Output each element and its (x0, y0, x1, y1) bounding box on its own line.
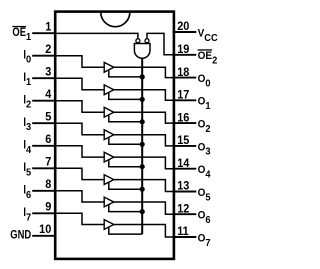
wire output O2: buffer to pin 16 (114, 112, 173, 123)
wire output O4: buffer to pin 14 (114, 157, 173, 169)
pin 2 stub (32, 55, 56, 57)
buffer A1 (triangle) (104, 85, 114, 95)
svg-text:9: 9 (45, 201, 51, 213)
svg-text:0: 0 (205, 78, 211, 90)
svg-text:GND: GND (10, 229, 31, 242)
pin 6 stub (32, 145, 56, 147)
junction dot OE net row 3 (140, 142, 145, 147)
svg-text:O: O (198, 232, 206, 245)
wire input I1: pin 3 to buffer (56, 78, 104, 90)
svg-text:O: O (198, 141, 206, 154)
svg-text:5: 5 (45, 111, 51, 123)
svg-text:OE: OE (198, 50, 212, 63)
pin 9 stub (32, 212, 56, 214)
wire enable buffer A4 to OE net (109, 160, 142, 167)
svg-text:7: 7 (205, 237, 211, 249)
pin 15 stub (173, 145, 197, 147)
svg-text:15: 15 (177, 135, 189, 147)
wire enable buffer A1 to OE net (109, 92, 142, 99)
svg-text:3: 3 (205, 146, 211, 158)
pin 7 stub (32, 167, 56, 169)
wire output O7: buffer to pin 11 (114, 225, 173, 238)
svg-text:3: 3 (26, 122, 32, 134)
svg-text:6: 6 (205, 215, 211, 227)
wire enable buffer A3 to OE net (109, 137, 142, 144)
pin 14 stub (173, 168, 197, 170)
svg-text:O: O (198, 186, 206, 199)
pin 12 stub (173, 213, 197, 215)
buffer A7 (triangle) (104, 220, 114, 230)
wire enable buffer A5 to OE net (109, 182, 142, 189)
svg-text:18: 18 (177, 67, 189, 79)
wire output O5: buffer to pin 13 (114, 180, 173, 192)
svg-text:1: 1 (45, 21, 51, 33)
buffer A5 (triangle) (104, 175, 114, 185)
wire OE2: pin 19 to gate right input (147, 33, 173, 54)
wire enable buffer A0 to OE net (109, 70, 142, 77)
junction dot OE net row 6 (140, 209, 145, 214)
svg-text:4: 4 (26, 144, 32, 156)
pin 16 stub (173, 122, 197, 124)
svg-text:10: 10 (39, 224, 51, 236)
svg-text:OE: OE (12, 26, 26, 39)
gate G1 input bubble right (145, 39, 149, 43)
pin 4 stub (32, 100, 56, 102)
svg-text:19: 19 (177, 44, 189, 56)
svg-text:13: 13 (177, 180, 189, 192)
svg-text:8: 8 (45, 179, 51, 191)
junction dot OE net row 4 (140, 164, 145, 169)
buffer A3 (triangle) (104, 130, 114, 140)
wire input I7: pin 9 to buffer (56, 213, 104, 224)
junction dot OE net row 2 (140, 119, 145, 124)
svg-text:17: 17 (177, 89, 189, 101)
pin 10 stub (32, 235, 56, 237)
pin 1 stub (32, 32, 56, 34)
svg-text:1: 1 (205, 101, 211, 113)
label OE1 overline (12, 26, 26, 27)
svg-text:2: 2 (205, 123, 211, 135)
junction dot OE net row 0 (140, 74, 145, 79)
wire input I0: pin 2 to buffer (56, 56, 104, 68)
buffer A4 (triangle) (104, 152, 114, 162)
junction dot OE net row 5 (140, 187, 145, 192)
svg-text:4: 4 (45, 89, 52, 101)
svg-text:CC: CC (204, 32, 217, 44)
buffer A2 (triangle) (104, 107, 114, 117)
svg-text:11: 11 (177, 226, 189, 238)
pin 20 stub (173, 31, 197, 33)
pin 8 stub (32, 190, 56, 192)
svg-text:O: O (198, 209, 206, 222)
junction dot OE net row 1 (140, 97, 145, 102)
net OE: gate output vertical line (141, 58, 143, 234)
wire input I4: pin 6 to buffer (56, 146, 104, 157)
IC body U1 (DIP-20 outline) (55, 12, 174, 259)
pin-1 notch (index semicircle) (101, 12, 130, 26)
svg-text:2: 2 (45, 44, 51, 56)
wire enable buffer A6 to OE net (109, 204, 142, 211)
svg-text:4: 4 (205, 169, 211, 181)
pin 18 stub (173, 77, 197, 79)
svg-text:20: 20 (177, 21, 189, 33)
pin 19 stub (173, 54, 197, 56)
pin 11 stub (173, 236, 197, 238)
svg-text:6: 6 (26, 189, 32, 201)
wire enable buffer A7 to OE net (109, 227, 142, 234)
svg-text:5: 5 (205, 192, 211, 204)
wire input I5: pin 7 to buffer (56, 168, 104, 179)
wire output O0: buffer to pin 18 (114, 67, 173, 77)
wire output O6: buffer to pin 12 (114, 202, 173, 214)
buffer A0 (triangle) (104, 62, 114, 72)
label OE2 overline (198, 49, 213, 50)
svg-text:O: O (198, 95, 206, 108)
wire input I3: pin 5 to buffer (56, 123, 104, 135)
svg-text:2: 2 (212, 55, 218, 67)
svg-text:14: 14 (177, 158, 190, 170)
gate G1 input bubble left (136, 39, 140, 43)
svg-text:O: O (198, 118, 206, 131)
svg-text:7: 7 (26, 212, 32, 224)
svg-text:2: 2 (26, 99, 32, 111)
svg-text:1: 1 (26, 77, 32, 89)
svg-text:3: 3 (45, 66, 51, 78)
wire input I2: pin 4 to buffer (56, 101, 104, 113)
svg-text:12: 12 (177, 203, 189, 215)
svg-text:6: 6 (45, 134, 51, 146)
svg-text:5: 5 (26, 167, 32, 179)
AND gate G1 (enable gate, pointing down) (134, 44, 150, 59)
wire OE1: pin 1 to gate left input (56, 33, 138, 38)
svg-text:0: 0 (26, 54, 32, 66)
svg-text:1: 1 (26, 32, 32, 44)
pin 17 stub (173, 99, 197, 101)
svg-text:O: O (198, 163, 206, 176)
buffer A6 (triangle) (104, 197, 114, 207)
wire output O3: buffer to pin 15 (114, 135, 173, 146)
pin 3 stub (32, 77, 56, 79)
svg-text:7: 7 (45, 156, 51, 168)
wire input I6: pin 8 to buffer (56, 191, 104, 202)
wire enable buffer A2 to OE net (109, 115, 142, 122)
svg-text:O: O (198, 72, 206, 85)
pin 5 stub (32, 122, 56, 124)
pin 13 stub (173, 191, 197, 193)
wire output O1: buffer to pin 17 (114, 90, 173, 101)
svg-text:16: 16 (177, 112, 189, 124)
